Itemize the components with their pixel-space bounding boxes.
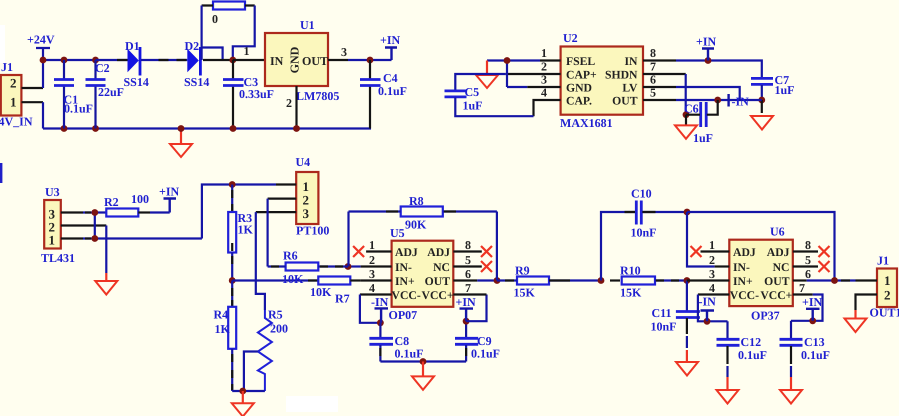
- ground at C13: [780, 377, 802, 404]
- svg-text:U2: U2: [563, 31, 578, 45]
- pin 8 of U2: [643, 59, 676, 61]
- pin 7 of U5: [453, 293, 486, 295]
- pin 5 of U5 with no-connect X: [453, 265, 482, 267]
- svg-text:-IN: -IN: [371, 295, 389, 309]
- power port +IN at U5: [456, 295, 477, 321]
- pin 3 of U5: [361, 279, 392, 281]
- node U3 pin3: [91, 209, 98, 216]
- svg-text:ADJ: ADJ: [767, 246, 790, 259]
- pin 7 of U6: [793, 293, 813, 295]
- svg-text:1K: 1K: [238, 223, 254, 237]
- svg-text:OUT: OUT: [425, 275, 451, 288]
- svg-text:24V_IN: 24V_IN: [0, 115, 33, 129]
- svg-text:J1: J1: [1, 60, 13, 74]
- svg-text:MAX1681: MAX1681: [560, 116, 613, 130]
- capacitor C6: [684, 100, 718, 145]
- wire D2 cathode to node: [203, 59, 233, 61]
- power port -IN at U2: [729, 94, 750, 109]
- svg-text:VCC-: VCC-: [730, 289, 759, 302]
- svg-text:TL431: TL431: [41, 251, 75, 265]
- svg-text:200: 200: [270, 322, 288, 336]
- wire SHDN down to gnd node: [685, 74, 687, 115]
- pin 3 of U3: [61, 211, 83, 213]
- svg-text:CAP.: CAP.: [566, 95, 592, 108]
- node U6 non-inverting input: [684, 277, 691, 284]
- resistor R4: [214, 281, 237, 392]
- wire J1 pin1 down to ground rail: [42, 102, 44, 128]
- capacitor C2: [86, 60, 125, 129]
- svg-text:+IN: +IN: [802, 295, 823, 309]
- capacitor C10: [625, 187, 688, 240]
- wire U1 out to +IN: [348, 59, 392, 61]
- svg-text:U6: U6: [770, 225, 785, 239]
- resistor R10: [610, 264, 687, 300]
- node +IN at U6: [809, 317, 816, 324]
- svg-text:1uF: 1uF: [775, 83, 795, 97]
- svg-text:2: 2: [286, 96, 292, 110]
- ground at C7: [751, 100, 773, 130]
- diode D2 SS14: [184, 39, 209, 89]
- svg-text:10K: 10K: [310, 285, 332, 299]
- pin 2 of U3: [61, 224, 107, 226]
- pin 2 of U1: [295, 86, 297, 129]
- svg-text:3: 3: [303, 206, 310, 221]
- svg-text:100: 100: [131, 192, 149, 206]
- wire 0-ohm left lead down to D2 cathode: [202, 6, 223, 61]
- wire D1 to D2: [141, 59, 187, 61]
- node ground rail tap: [178, 125, 185, 132]
- svg-text:U5: U5: [390, 226, 405, 240]
- svg-text:IN+: IN+: [395, 275, 415, 288]
- pin 5 of U2: [643, 99, 676, 101]
- svg-text:+IN: +IN: [456, 295, 477, 309]
- pin 2 of U6: [715, 265, 730, 267]
- node U5 inverting input: [345, 263, 352, 270]
- node R3 top: [229, 181, 236, 188]
- op-amp U5 OP07: [389, 226, 454, 322]
- wire +24V vertical to J1 pin2: [42, 60, 44, 88]
- shunt reference U3 TL431: [41, 185, 75, 265]
- ground at C6: [675, 115, 697, 139]
- node U1 gnd: [293, 125, 300, 132]
- node C7 bottom: [758, 97, 765, 104]
- pin 6 of U2: [643, 86, 676, 88]
- svg-text:1: 1: [884, 273, 891, 288]
- svg-text:OUT1: OUT1: [870, 306, 899, 320]
- pin 4 of U5: [360, 293, 392, 295]
- wire R3/R4 node to R7: [232, 279, 318, 281]
- pin 2 of U2: [506, 73, 561, 75]
- svg-text:C13: C13: [804, 335, 825, 349]
- node C2 bottom: [92, 125, 99, 132]
- wire C10 node down to U6 IN-: [687, 212, 715, 267]
- resistor R8: [349, 194, 497, 232]
- svg-text:LM7805: LM7805: [296, 89, 339, 103]
- ground at U3: [95, 273, 117, 295]
- svg-text:IN+: IN+: [733, 275, 753, 288]
- node U5 output: [494, 277, 501, 284]
- svg-text:R9: R9: [515, 264, 530, 278]
- svg-text:1uF: 1uF: [693, 131, 713, 145]
- node FSEL/GND: [504, 57, 511, 64]
- svg-text:U1: U1: [300, 18, 315, 32]
- power port +IN at U6: [802, 295, 823, 321]
- capacitor C7: [751, 73, 795, 100]
- wire pin6 to node: [477, 279, 497, 281]
- capacitor C4: [360, 60, 407, 129]
- node U1 input: [229, 57, 236, 64]
- svg-text:1: 1: [369, 238, 375, 252]
- svg-text:7: 7: [465, 281, 471, 295]
- svg-text:4: 4: [541, 86, 547, 100]
- svg-text:VCC+: VCC+: [422, 289, 454, 302]
- svg-text:FSEL: FSEL: [566, 55, 595, 68]
- node C1 bottom: [61, 125, 68, 132]
- svg-text:R8: R8: [409, 194, 424, 208]
- wire U3 ref vertical: [94, 213, 96, 239]
- svg-text:+IN: +IN: [380, 33, 401, 47]
- svg-text:0.1uF: 0.1uF: [395, 347, 424, 361]
- svg-text:5: 5: [805, 253, 811, 267]
- svg-text:-IN: -IN: [732, 95, 750, 109]
- ground at C11: [676, 350, 698, 376]
- svg-text:IN-: IN-: [395, 261, 412, 274]
- pin 2 of U5: [361, 265, 392, 267]
- svg-text:IN: IN: [270, 54, 284, 68]
- wire C8/C9 common ground: [380, 360, 466, 362]
- node R3 bottom: [229, 277, 236, 284]
- wire C10 node to U6 output feedback: [687, 212, 835, 281]
- wire FSEL-GND net: [487, 61, 540, 88]
- node C10 right: [684, 209, 691, 216]
- svg-text:R6: R6: [283, 249, 298, 263]
- svg-text:8: 8: [465, 238, 471, 252]
- svg-text:IN: IN: [625, 55, 639, 68]
- svg-text:SHDN: SHDN: [605, 69, 638, 82]
- svg-text:8: 8: [805, 238, 811, 252]
- wire U4 pin3 down to R5: [256, 212, 265, 310]
- node OUT/C6: [714, 97, 721, 104]
- svg-text:2: 2: [884, 288, 891, 303]
- svg-text:2: 2: [709, 253, 715, 267]
- node U5 decoupling ground: [420, 358, 427, 365]
- wire R8 right down to OUT node: [496, 212, 498, 281]
- node U6 output: [831, 277, 838, 284]
- capacitor C9: [455, 321, 500, 361]
- svg-text:ADJ: ADJ: [395, 246, 418, 259]
- svg-text:1: 1: [709, 238, 715, 252]
- svg-text:2: 2: [10, 76, 17, 91]
- svg-text:C10: C10: [631, 187, 652, 201]
- svg-text:6: 6: [465, 267, 471, 281]
- pin 7 of U2: [643, 73, 686, 75]
- resistor R9: [497, 264, 601, 300]
- charge pump U2 MAX1681: [560, 31, 643, 130]
- connector U4 PT100: [296, 155, 330, 238]
- wire OUT to -IN: [676, 99, 762, 101]
- wire 0-ohm right lead down to node: [233, 6, 255, 61]
- ground at R4/R5: [232, 391, 254, 416]
- svg-text:6: 6: [805, 267, 811, 281]
- capacitor C8: [369, 323, 423, 362]
- svg-text:0.1uF: 0.1uF: [64, 102, 93, 116]
- node +IN at U5: [463, 318, 470, 325]
- svg-text:3: 3: [541, 73, 547, 87]
- svg-text:1K: 1K: [215, 322, 231, 336]
- svg-text:1: 1: [49, 233, 56, 248]
- pin 2 of J1 OUT: [856, 295, 878, 311]
- svg-text:C2: C2: [95, 61, 110, 75]
- resistor R7: [308, 277, 361, 306]
- connector J1 OUT1: [870, 254, 899, 320]
- capacitor C11: [651, 281, 700, 349]
- svg-text:C4: C4: [383, 71, 398, 85]
- ground rail symbol: [170, 129, 192, 158]
- svg-text:-IN: -IN: [699, 295, 717, 309]
- ground at U2 FSEL: [476, 61, 498, 89]
- node +24V junction: [40, 57, 47, 64]
- svg-text:0.1uF: 0.1uF: [471, 347, 500, 361]
- node -IN at U6: [704, 318, 711, 325]
- svg-text:GND: GND: [288, 46, 302, 73]
- svg-text:GND: GND: [566, 82, 592, 95]
- wire pin7 loop to +IN node: [791, 295, 823, 321]
- wire R6 node to pin2: [348, 265, 361, 267]
- svg-text:0.33uF: 0.33uF: [239, 87, 274, 101]
- power port +IN: [380, 33, 401, 60]
- ground at C12: [717, 377, 739, 404]
- pin 1 of U1: [233, 59, 265, 61]
- wire +IN node to pin7: [466, 295, 486, 322]
- svg-text:0: 0: [212, 12, 218, 26]
- op-amp U6 OP37: [729, 225, 793, 323]
- power port -IN at U5: [371, 295, 389, 323]
- svg-text:R10: R10: [620, 264, 641, 278]
- power port +IN at R2: [159, 185, 180, 213]
- pin 8 of U5 with no-connect X: [453, 250, 482, 252]
- pin 3 of U6: [687, 279, 729, 281]
- svg-text:OUT: OUT: [302, 54, 328, 68]
- capacitor C13: [780, 321, 831, 377]
- svg-text:SS14: SS14: [184, 75, 209, 89]
- svg-text:5: 5: [465, 253, 471, 267]
- svg-text:1uF: 1uF: [463, 99, 483, 113]
- wire ref net up and right to U4: [202, 185, 276, 239]
- svg-text:3: 3: [341, 45, 347, 59]
- wire ground rail: [43, 127, 371, 129]
- node C2 top: [92, 57, 99, 64]
- svg-text:0.1uF: 0.1uF: [378, 84, 407, 98]
- svg-text:OUT: OUT: [612, 95, 638, 108]
- svg-text:5: 5: [650, 86, 656, 100]
- node +IN at U2: [705, 57, 712, 64]
- svg-text:OP07: OP07: [389, 308, 418, 322]
- svg-text:0.1uF: 0.1uF: [738, 348, 767, 362]
- wire U4 pin2 down to R6: [267, 199, 269, 267]
- svg-text:R2: R2: [104, 195, 119, 209]
- pin 6 of U5: [453, 279, 477, 281]
- node bottom ground: [239, 388, 246, 395]
- wire VCC- loop to -IN node: [360, 295, 381, 323]
- svg-text:4: 4: [709, 281, 715, 295]
- wire node up to C10: [601, 212, 636, 281]
- capacitor C3: [223, 60, 274, 129]
- svg-text:C5: C5: [465, 85, 480, 99]
- pin 5 of U6 with no-connect X: [793, 265, 818, 267]
- node R9/R10/C10: [598, 277, 605, 284]
- power port -IN at U6: [699, 295, 717, 322]
- svg-text:C11: C11: [652, 306, 672, 320]
- svg-text:3: 3: [709, 267, 715, 281]
- wire U6 VCC- to -IN node: [698, 295, 728, 322]
- pin 1 of U2: [540, 59, 561, 61]
- svg-text:R7: R7: [335, 292, 350, 306]
- svg-text:LV: LV: [622, 82, 638, 95]
- pin 2 of U4: [268, 198, 297, 200]
- svg-text:4: 4: [369, 281, 375, 295]
- pin 4 of U6: [698, 293, 729, 295]
- svg-text:2: 2: [541, 60, 547, 74]
- pin 3 of U1: [328, 59, 348, 61]
- svg-text:6: 6: [650, 73, 656, 87]
- svg-text:OUT: OUT: [764, 275, 790, 288]
- svg-text:U3: U3: [45, 185, 60, 199]
- svg-text:90K: 90K: [405, 218, 427, 232]
- capacitor C5: [445, 85, 483, 113]
- ground at J1 OUT: [845, 310, 867, 332]
- svg-text:10nF: 10nF: [631, 226, 657, 240]
- node C1 top: [61, 57, 68, 64]
- svg-text:0.1uF: 0.1uF: [801, 348, 830, 362]
- pin 1 of U6 with no-connect X: [701, 250, 730, 252]
- wire R4/R5 bottom: [232, 390, 265, 392]
- svg-text:1: 1: [10, 95, 17, 110]
- ground at U5: [412, 362, 434, 390]
- pin 1 of U5 with no-connect X: [366, 250, 392, 252]
- svg-text:C6: C6: [684, 102, 699, 116]
- svg-text:3: 3: [369, 267, 375, 281]
- pin 1 of J1: [22, 101, 44, 103]
- svg-text:VCC+: VCC+: [760, 289, 792, 302]
- power port +24V: [36, 48, 50, 60]
- svg-text:PT100: PT100: [296, 224, 329, 238]
- svg-text:D1: D1: [125, 39, 140, 53]
- pin 8 of U6 with no-connect X: [793, 250, 818, 252]
- svg-text:R5: R5: [268, 308, 283, 322]
- resistor R3: [228, 185, 253, 281]
- wire top +24V rail: [43, 59, 97, 61]
- node U3 pin1: [91, 235, 98, 242]
- svg-text:ADJ: ADJ: [733, 246, 756, 259]
- wire C5 bottom to CAP.: [455, 98, 533, 117]
- svg-text:ADJ: ADJ: [427, 246, 450, 259]
- svg-text:10K: 10K: [282, 272, 304, 286]
- svg-text:7: 7: [799, 281, 805, 295]
- node SHDN/C6 gnd: [683, 111, 690, 118]
- wire LV to -IN net: [676, 87, 740, 100]
- svg-text:VCC-: VCC-: [392, 289, 421, 302]
- capacitor C1: [54, 60, 93, 129]
- power port +IN at U2: [696, 35, 717, 61]
- node C3 bottom: [230, 125, 237, 132]
- wire pin1 to node: [83, 237, 202, 239]
- svg-text:U4: U4: [296, 155, 311, 169]
- pin 6 of U6: [793, 279, 807, 281]
- connector J1 (24V_IN): [0, 60, 33, 129]
- svg-text:2: 2: [369, 253, 375, 267]
- resistor 0 ohm jumper: [202, 2, 255, 27]
- svg-text:SS14: SS14: [124, 75, 149, 89]
- svg-text:NC: NC: [773, 261, 790, 274]
- svg-text:R4: R4: [214, 308, 229, 322]
- pin 1 of J1 OUT: [856, 279, 878, 281]
- svg-text:NC: NC: [433, 261, 450, 274]
- svg-text:22uF: 22uF: [98, 85, 124, 99]
- svg-text:7: 7: [650, 60, 656, 74]
- svg-text:C12: C12: [741, 335, 762, 349]
- svg-text:D2: D2: [185, 39, 200, 53]
- svg-text:OP37: OP37: [751, 309, 780, 323]
- svg-text:10nF: 10nF: [651, 320, 677, 334]
- svg-text:J1: J1: [877, 254, 889, 268]
- svg-text:+IN: +IN: [696, 35, 717, 49]
- wire U6 out to J1: [807, 279, 856, 281]
- wire IN to C7: [676, 61, 762, 79]
- pin 4 of U2: [534, 100, 561, 116]
- wire U3 pin2 to ground: [105, 226, 107, 274]
- svg-text:1: 1: [244, 44, 250, 58]
- wire R8 left down to IN- node: [347, 212, 349, 267]
- svg-text:15K: 15K: [514, 286, 536, 300]
- svg-text:8: 8: [650, 46, 656, 60]
- wire C2 to D1: [96, 59, 128, 61]
- diode D1 SS14: [124, 39, 149, 89]
- svg-text:15K: 15K: [620, 286, 642, 300]
- regulator U1 LM7805: [265, 18, 339, 103]
- pin 3 of U4: [256, 211, 296, 213]
- capacitor C12: [717, 321, 768, 377]
- resistor R6: [268, 249, 348, 287]
- svg-text:IN-: IN-: [733, 261, 750, 274]
- pin 2 of J1: [22, 87, 44, 89]
- node -IN at U5: [377, 319, 384, 326]
- wire CAP+ to C5: [455, 74, 505, 90]
- svg-text:CAP+: CAP+: [566, 69, 597, 82]
- resistor R2: [104, 192, 170, 217]
- svg-text:+IN: +IN: [159, 185, 180, 199]
- pin 1 of U4: [276, 183, 296, 185]
- svg-text:+24V: +24V: [27, 33, 55, 47]
- svg-text:1: 1: [541, 46, 547, 60]
- node C4 top: [367, 57, 374, 64]
- wire pin3 to node: [83, 211, 106, 213]
- pin 1 of U3: [61, 237, 83, 239]
- pin 3 of U2: [527, 86, 560, 88]
- rheostat R5: [244, 308, 288, 392]
